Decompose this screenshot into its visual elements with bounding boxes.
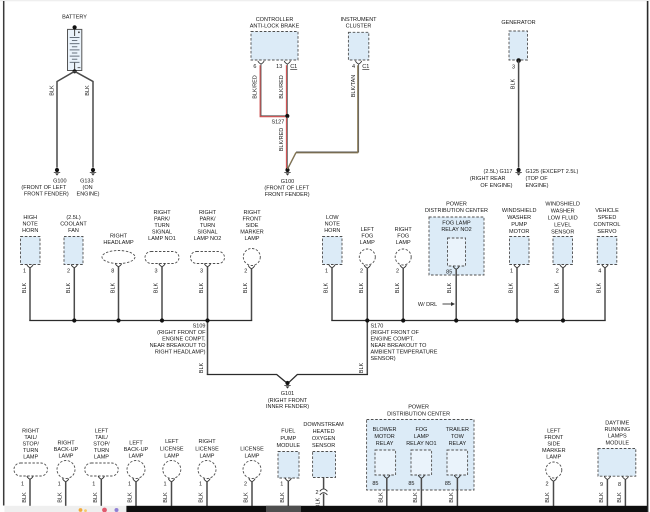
svg-text:G100: G100	[53, 178, 66, 184]
wire BLK fuel pump module	[287, 481, 289, 507]
svg-text:BLK: BLK	[199, 492, 205, 503]
svg-text:FOG LAMP: FOG LAMP	[442, 221, 471, 227]
svg-text:BLK: BLK	[49, 85, 55, 96]
svg-text:(RIGHT REAR: (RIGHT REAR	[470, 176, 506, 182]
svg-text:HEADLAMP: HEADLAMP	[103, 240, 134, 246]
wire BLK right headlamp	[118, 267, 120, 321]
fog lamp relay no2 fork	[453, 266, 459, 269]
wire BLK left back-up lamp	[135, 482, 137, 507]
svg-text:FRONT: FRONT	[243, 217, 263, 223]
svg-text:BLK: BLK	[449, 492, 455, 503]
wire BLK license lamp	[251, 482, 253, 507]
right fog lamp fork	[400, 265, 406, 268]
battery symbol	[68, 29, 82, 70]
svg-text:NEAR BREAKOUT TO: NEAR BREAKOUT TO	[371, 343, 428, 349]
wire BLK drl pin 9	[606, 480, 608, 507]
svg-text:BLK/RED: BLK/RED	[253, 75, 259, 99]
connector fork pin 13	[284, 61, 290, 64]
svg-text:BLK: BLK	[199, 362, 205, 373]
wire BLK low fluid sensor	[562, 268, 564, 321]
svg-text:BLK: BLK	[597, 282, 603, 293]
license lamp fork	[249, 479, 255, 482]
svg-text:TURN: TURN	[200, 223, 215, 229]
left front side marker lamp	[546, 462, 562, 478]
left license lamp	[163, 461, 181, 479]
svg-text:BLK: BLK	[545, 492, 551, 503]
left back-up lamp	[127, 461, 145, 479]
coolant fan fork	[71, 265, 77, 268]
svg-text:VEHICLE: VEHICLE	[595, 208, 619, 214]
wire BLK park lamp no2 / S109 drop	[207, 267, 209, 375]
svg-text:BLK: BLK	[110, 282, 116, 293]
wire BLK/RED pin13 to S127	[286, 64, 288, 115]
taskbar icon red	[102, 508, 107, 512]
svg-text:HIGH: HIGH	[23, 215, 37, 221]
svg-text:BLK: BLK	[509, 282, 515, 293]
svg-text:1: 1	[325, 268, 328, 274]
svg-text:BLK: BLK	[57, 492, 63, 503]
svg-text:CLUSTER: CLUSTER	[346, 24, 372, 30]
svg-text:3: 3	[512, 65, 515, 71]
svg-text:RIGHT: RIGHT	[199, 210, 217, 216]
svg-text:1: 1	[199, 482, 202, 488]
svg-text:CONTROLLER: CONTROLLER	[256, 17, 294, 23]
svg-text:DOWNSTREAM: DOWNSTREAM	[303, 422, 344, 428]
svg-text:TAIL/: TAIL/	[95, 435, 108, 441]
trailer tow relay inner box	[447, 450, 468, 475]
wire oxygen sensor upper	[323, 478, 325, 489]
svg-text:FRONT: FRONT	[544, 435, 564, 441]
svg-text:BLK: BLK	[359, 282, 365, 293]
svg-text:LAMP: LAMP	[94, 455, 109, 461]
svg-text:TRAILER: TRAILER	[446, 427, 469, 433]
power distribution center (bottom) box	[367, 420, 474, 491]
svg-text:ENGINE): ENGINE)	[77, 191, 100, 197]
fog lamp relay no1 inner box	[411, 450, 432, 475]
svg-text:2: 2	[316, 490, 319, 496]
svg-text:LEFT: LEFT	[129, 441, 143, 447]
svg-text:LAMP: LAMP	[546, 455, 561, 461]
svg-text:(RIGHT FRONT OF: (RIGHT FRONT OF	[157, 330, 206, 336]
splice S109 node	[205, 318, 209, 322]
svg-text:2: 2	[244, 268, 247, 274]
svg-text:LOW FLUID: LOW FLUID	[548, 216, 578, 222]
svg-text:SIGNAL: SIGNAL	[197, 230, 217, 236]
svg-text:BLK: BLK	[66, 282, 72, 293]
svg-text:LAMP: LAMP	[129, 454, 144, 460]
wire BLK left license lamp	[171, 482, 173, 507]
svg-text:BLK: BLK	[243, 282, 249, 293]
svg-text:13: 13	[276, 64, 282, 70]
svg-text:SENSOR: SENSOR	[312, 443, 335, 449]
svg-text:LAMP NO2: LAMP NO2	[194, 236, 222, 242]
svg-text:2: 2	[556, 268, 559, 274]
svg-text:FRONT FENDER): FRONT FENDER)	[24, 191, 69, 197]
svg-text:SIDE: SIDE	[246, 223, 259, 229]
vehicle speed control servo box	[597, 237, 617, 265]
wire BLK generator to ground	[518, 61, 520, 168]
svg-text:COOLANT: COOLANT	[60, 222, 87, 228]
svg-text:RELAY: RELAY	[449, 441, 467, 447]
svg-text:WINDSHIELD: WINDSHIELD	[545, 202, 580, 208]
wire BLK low note horn	[331, 268, 333, 321]
svg-text:ENGINE COMPT.: ENGINE COMPT.	[371, 337, 415, 343]
svg-text:LAMP: LAMP	[245, 454, 260, 460]
svg-text:1: 1	[23, 268, 26, 274]
svg-text:LAMP: LAMP	[414, 434, 429, 440]
svg-text:1: 1	[163, 482, 166, 488]
svg-text:S109: S109	[193, 324, 206, 330]
right front side marker fork	[248, 266, 254, 269]
svg-text:BLK: BLK	[617, 492, 623, 503]
fuel pump module fork	[285, 478, 291, 481]
wire S170 to G101	[289, 375, 368, 383]
svg-text:RELAY NO2: RELAY NO2	[441, 227, 471, 233]
svg-text:LAMP: LAMP	[59, 454, 74, 460]
daytime running lamps module box	[598, 449, 636, 477]
svg-text:NOTE: NOTE	[23, 222, 39, 228]
svg-text:BLK: BLK	[85, 85, 91, 96]
left license lamp fork	[168, 479, 174, 482]
right frame border	[647, 1, 649, 512]
taskbar dark segment	[126, 506, 647, 512]
svg-text:LAMP: LAMP	[23, 455, 38, 461]
taskbar icon purple	[115, 508, 119, 512]
svg-text:LICENSE: LICENSE	[160, 447, 184, 453]
taskbar light segment	[4, 506, 126, 512]
svg-text:LEFT: LEFT	[165, 439, 179, 445]
svg-text:NEAR BREAKOUT TO: NEAR BREAKOUT TO	[150, 343, 207, 349]
right headlamp fork	[115, 264, 121, 267]
low note horn box	[323, 237, 343, 265]
downstream heated oxygen sensor box	[313, 452, 336, 478]
svg-text:BLK: BLK	[379, 492, 385, 503]
svg-text:1: 1	[58, 482, 61, 488]
wire BLK right tail lamp	[29, 479, 31, 507]
svg-text:TURN: TURN	[23, 448, 38, 454]
svg-text:BLK/RED: BLK/RED	[279, 128, 285, 152]
svg-text:9: 9	[600, 482, 603, 488]
svg-text:BLK: BLK	[93, 492, 99, 503]
svg-text:SENSOR: SENSOR	[551, 230, 574, 236]
svg-text:LAMP: LAMP	[164, 454, 179, 460]
battery bottom node	[73, 69, 77, 73]
svg-text:TOW: TOW	[451, 434, 465, 440]
svg-text:LOW: LOW	[326, 215, 339, 221]
svg-text:8: 8	[618, 482, 621, 488]
svg-text:STOP/: STOP/	[93, 442, 110, 448]
wire BLK right side marker	[251, 269, 253, 321]
controller anti-lock brake box	[251, 32, 298, 61]
blower motor relay fork	[384, 475, 390, 478]
svg-text:MARKER: MARKER	[240, 230, 264, 236]
svg-text:85: 85	[408, 481, 414, 487]
ground G133	[91, 168, 95, 172]
right ground bus to S170	[331, 320, 605, 322]
svg-text:RUNNING: RUNNING	[604, 427, 630, 433]
taskbar icon sparkle	[79, 508, 83, 512]
svg-text:PUMP: PUMP	[511, 222, 527, 228]
wire BLK right license lamp	[206, 482, 208, 507]
wire BLK fog lamp relay no1	[420, 478, 422, 507]
svg-text:2: 2	[545, 482, 548, 488]
wire BLK left side marker	[553, 481, 555, 507]
license lamp	[243, 461, 261, 479]
right tail/stop/turn lamp	[14, 463, 48, 476]
svg-text:TURN: TURN	[154, 223, 169, 229]
svg-text:MODULE: MODULE	[277, 443, 301, 449]
wire BLK drl pin 8	[624, 480, 626, 507]
svg-text:FOG: FOG	[397, 234, 409, 240]
svg-text:(RIGHT FRONT: (RIGHT FRONT	[268, 398, 308, 404]
svg-text:FRONT FENDER): FRONT FENDER)	[265, 192, 310, 198]
svg-text:(FRONT OF LEFT: (FRONT OF LEFT	[264, 186, 309, 192]
svg-text:PARK/: PARK/	[199, 217, 216, 223]
wire BLK/TAN cluster to G100	[288, 64, 358, 168]
svg-text:2: 2	[244, 482, 247, 488]
svg-text:LAMP: LAMP	[360, 240, 375, 246]
wire BLK oxygen sensor lower	[323, 494, 325, 507]
fuel pump module box	[278, 452, 299, 479]
svg-text:LEFT: LEFT	[361, 227, 375, 233]
svg-text:SIDE: SIDE	[547, 442, 560, 448]
svg-text:MARKER: MARKER	[542, 448, 566, 454]
svg-text:LAMP NO1: LAMP NO1	[148, 236, 176, 242]
svg-text:(ON: (ON	[83, 185, 93, 191]
svg-text:LEFT: LEFT	[95, 429, 109, 435]
wire battery to G133 (right drop)	[75, 71, 93, 167]
svg-text:RIGHT: RIGHT	[22, 429, 40, 435]
left fog lamp	[359, 249, 375, 265]
svg-text:BLK: BLK	[511, 78, 517, 89]
svg-text:BLK: BLK	[280, 492, 286, 503]
ground G117/G125	[517, 168, 521, 172]
washer low fluid sensor fork	[560, 265, 566, 268]
svg-text:4: 4	[352, 64, 355, 70]
wire BLK fog lamp relay no2	[455, 269, 457, 320]
svg-text:LAMP: LAMP	[245, 236, 260, 242]
junction node (fog relay no2)	[454, 318, 458, 322]
svg-text:LAMP: LAMP	[396, 240, 411, 246]
svg-text:2: 2	[396, 268, 399, 274]
svg-text:FAN: FAN	[68, 228, 79, 234]
svg-text:OF ENGINE): OF ENGINE)	[480, 183, 512, 189]
taskbar gray segment	[266, 506, 301, 512]
wire BLK right back-up lamp	[65, 482, 67, 507]
trailer tow relay fork	[454, 475, 460, 478]
svg-text:PARK/: PARK/	[154, 217, 171, 223]
right fog lamp	[395, 249, 411, 265]
washer low fluid level sensor box	[553, 237, 573, 265]
svg-text:BLK: BLK	[555, 282, 561, 293]
battery positive terminal node	[73, 25, 77, 29]
svg-text:LAMP: LAMP	[200, 454, 215, 460]
svg-text:RIGHT: RIGHT	[153, 210, 171, 216]
svg-text:G133: G133	[80, 178, 93, 184]
wire BLK blower motor relay	[386, 478, 388, 507]
ground G100 (battery)	[55, 168, 59, 172]
coolant fan box	[64, 237, 83, 265]
junction node (right headlamp)	[116, 318, 120, 322]
svg-text:PUMP: PUMP	[280, 436, 296, 442]
svg-text:CONTROL: CONTROL	[594, 222, 621, 228]
svg-text:(TOP OF: (TOP OF	[526, 176, 549, 182]
svg-text:BLK: BLK	[359, 362, 365, 373]
svg-text:NOTE: NOTE	[325, 222, 341, 228]
svg-text:POWER: POWER	[408, 405, 429, 411]
svg-text:STOP/: STOP/	[22, 442, 39, 448]
svg-text:WASHER: WASHER	[551, 209, 575, 215]
svg-text:AMBIENT TEMPERATURE: AMBIENT TEMPERATURE	[371, 350, 438, 356]
windshield washer pump motor box	[510, 237, 530, 265]
svg-text:FOG: FOG	[415, 427, 427, 433]
high note horn fork	[27, 265, 33, 268]
svg-text:MODULE: MODULE	[606, 440, 630, 446]
svg-text:BACK-UP: BACK-UP	[54, 447, 79, 453]
right front side marker lamp	[243, 249, 260, 266]
svg-text:LICENSE: LICENSE	[195, 447, 219, 453]
svg-text:BLK: BLK	[163, 492, 169, 503]
svg-text:3: 3	[200, 268, 203, 274]
svg-text:DAYTIME: DAYTIME	[605, 421, 629, 427]
left tail/stop/turn lamp	[85, 463, 119, 476]
svg-text:WASHER: WASHER	[507, 215, 531, 221]
svg-text:BLK: BLK	[447, 282, 453, 293]
right park/turn signal lamp no2	[191, 252, 225, 264]
left back-up lamp fork	[133, 479, 139, 482]
svg-text:LEVEL: LEVEL	[554, 223, 571, 229]
svg-text:RIGHT: RIGHT	[110, 234, 128, 240]
svg-text:2: 2	[67, 268, 70, 274]
svg-text:RIGHT: RIGHT	[243, 210, 261, 216]
svg-text:FUEL: FUEL	[281, 429, 295, 435]
drl module fork pin 9	[604, 476, 610, 479]
svg-text:GENERATOR: GENERATOR	[501, 20, 535, 26]
wire BLK left tail lamp	[100, 479, 102, 507]
svg-text:FOG: FOG	[361, 234, 373, 240]
svg-text:BLOWER: BLOWER	[373, 427, 397, 433]
wire BLK/RED pin6 to S127	[261, 64, 286, 116]
svg-text:85: 85	[372, 481, 378, 487]
wire BLK left fog lamp / S170 drop	[366, 268, 368, 374]
generator box	[509, 31, 528, 60]
svg-text:1: 1	[21, 482, 24, 488]
right license lamp	[198, 461, 216, 479]
svg-text:SENSOR): SENSOR)	[371, 356, 396, 362]
svg-text:RIGHT: RIGHT	[57, 441, 75, 447]
svg-text:1: 1	[510, 268, 513, 274]
low note horn fork	[329, 265, 335, 268]
generator pin 3 node	[516, 58, 521, 63]
svg-text:HEATED: HEATED	[313, 429, 335, 435]
svg-text:G100: G100	[281, 179, 294, 185]
svg-text:(FRONT OF LEFT: (FRONT OF LEFT	[21, 185, 66, 191]
wire BLK/RED S127 to G100	[286, 117, 288, 168]
svg-text:INNER FENDER): INNER FENDER)	[266, 404, 309, 410]
top window edge	[0, 0, 650, 1]
svg-text:ANTI-LOCK BRAKE: ANTI-LOCK BRAKE	[250, 24, 300, 30]
right park/turn lamp no2 fork	[204, 264, 210, 267]
svg-text:BLK: BLK	[244, 492, 250, 503]
connector fork pin 6	[258, 61, 264, 64]
wire BLK high note horn	[29, 268, 31, 321]
wire S109 to G101	[207, 375, 286, 383]
left tail lamp fork	[98, 476, 104, 479]
svg-text:BLK: BLK	[395, 282, 401, 293]
svg-text:LEFT: LEFT	[547, 429, 561, 435]
svg-text:W/ DRL: W/ DRL	[418, 302, 437, 308]
wire BLK trailer tow relay	[456, 478, 458, 507]
svg-text:SERVO: SERVO	[597, 229, 617, 235]
svg-text:OXYGEN: OXYGEN	[312, 436, 336, 442]
svg-text:INSTRUMENT: INSTRUMENT	[340, 17, 377, 23]
splice S170 node	[365, 318, 369, 322]
svg-text:ENGINE COMPT.: ENGINE COMPT.	[162, 337, 206, 343]
svg-text:BLK: BLK	[22, 282, 28, 293]
svg-text:SPEED: SPEED	[598, 215, 617, 221]
wire BLK washer pump motor	[516, 268, 518, 321]
svg-text:BLK/TAN: BLK/TAN	[351, 75, 357, 98]
svg-text:BLK: BLK	[199, 282, 205, 293]
svg-text:(2.5L): (2.5L)	[66, 215, 81, 221]
blower motor relay inner box	[375, 450, 396, 475]
left frame border	[3, 1, 5, 506]
wire BLK park lamp no1	[161, 267, 163, 321]
svg-text:POWER: POWER	[446, 202, 467, 208]
svg-text:ENGINE): ENGINE)	[526, 183, 549, 189]
wire BLK coolant fan	[73, 268, 75, 321]
left ground bus to S109	[29, 320, 252, 322]
svg-text:BLK/RED: BLK/RED	[279, 75, 285, 99]
left fog lamp fork	[364, 265, 370, 268]
svg-text:1: 1	[280, 482, 283, 488]
svg-text:HORN: HORN	[324, 228, 340, 234]
power distribution center (top) box	[429, 217, 484, 275]
svg-text:RELAY NO1: RELAY NO1	[406, 441, 436, 447]
svg-text:4: 4	[598, 268, 601, 274]
svg-text:RIGHT: RIGHT	[395, 227, 413, 233]
svg-text:BLK: BLK	[324, 282, 330, 293]
svg-text:DISTRIBUTION CENTER: DISTRIBUTION CENTER	[387, 412, 450, 418]
inline connector (oxygen sensor)	[320, 489, 328, 491]
svg-text:LICENSE: LICENSE	[240, 447, 264, 453]
wire battery to G100 (left drop)	[57, 71, 75, 167]
svg-text:WINDSHIELD: WINDSHIELD	[502, 208, 537, 214]
junction node (low fluid sensor)	[561, 318, 565, 322]
svg-text:BACK-UP: BACK-UP	[124, 447, 149, 453]
svg-text:3: 3	[155, 268, 158, 274]
svg-text:BATTERY: BATTERY	[62, 15, 87, 21]
high note horn box	[21, 237, 41, 265]
svg-text:LAMPS: LAMPS	[608, 434, 627, 440]
instrument cluster box	[348, 32, 368, 60]
svg-text:1: 1	[92, 482, 95, 488]
washer pump motor fork	[514, 265, 520, 268]
junction node (right fog lamp)	[401, 318, 405, 322]
svg-text:(2.5L) G117: (2.5L) G117	[484, 169, 513, 175]
svg-text:S127: S127	[271, 120, 284, 126]
svg-text:8: 8	[111, 268, 114, 274]
fog lamp relay no2 inner box	[448, 238, 466, 266]
svg-text:DISTRIBUTION CENTER: DISTRIBUTION CENTER	[425, 208, 488, 214]
svg-text:MOTOR: MOTOR	[509, 229, 529, 235]
ground G101	[285, 381, 289, 385]
right back-up lamp	[57, 461, 75, 479]
junction node (washer pump)	[515, 318, 519, 322]
svg-text:6: 6	[253, 64, 256, 70]
svg-text:RIGHT HEADLAMP): RIGHT HEADLAMP)	[155, 350, 206, 356]
junction node (park lamp no1)	[160, 318, 164, 322]
